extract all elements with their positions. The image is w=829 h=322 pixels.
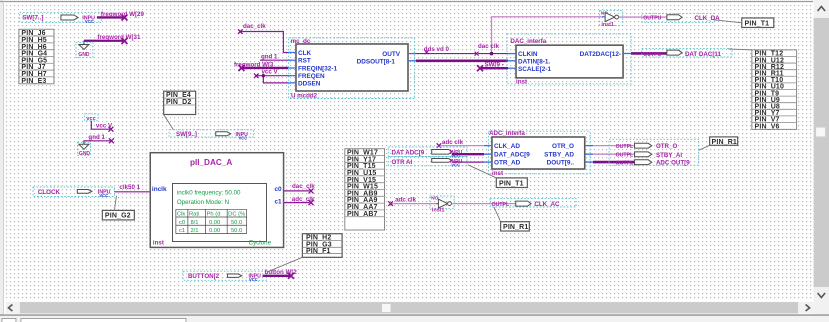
svg-text:dac_clk: dac_clk bbox=[243, 23, 266, 30]
svg-text:8/1: 8/1 bbox=[190, 220, 198, 226]
input pin DAT_ADC[9 bbox=[388, 147, 467, 159]
svg-text:Clk: Clk bbox=[177, 212, 185, 218]
svg-text:adc clk: adc clk bbox=[442, 139, 464, 146]
svg-text:CLK_DA: CLK_DA bbox=[695, 15, 721, 22]
svg-text:PIN_R1: PIN_R1 bbox=[503, 224, 528, 231]
svg-text:Rati: Rati bbox=[189, 212, 199, 218]
svg-text:c1: c1 bbox=[274, 198, 282, 205]
svg-text:c1: c1 bbox=[179, 228, 185, 234]
svg-text:DDSEN: DDSEN bbox=[298, 80, 321, 87]
wire gnd_1 into RST bbox=[260, 53, 288, 60]
output pins OTR_O / STBY_AD / ADC_OUT[9 selection bbox=[609, 139, 699, 165]
output pin ADC_OUT[9 bbox=[616, 160, 691, 167]
pin location box PIN_T12..PIN_V6 bbox=[728, 49, 797, 130]
wire vcc_V into FREQEN/DDSEN bbox=[254, 69, 288, 83]
svg-text:inst1: inst1 bbox=[601, 22, 614, 28]
svg-text:STBY_AD: STBY_AD bbox=[544, 152, 574, 159]
svg-text:OUTPL: OUTPL bbox=[616, 161, 634, 167]
svg-text:PIN_G2: PIN_G2 bbox=[105, 213, 131, 220]
svg-text:SW[7..]: SW[7..] bbox=[22, 14, 43, 21]
svg-text:CLK: CLK bbox=[298, 50, 312, 57]
pll U0: pll_DAC block bbox=[150, 153, 283, 248]
ground symbol (freqword) bbox=[76, 42, 93, 58]
svg-text:VCC: VCC bbox=[238, 135, 247, 140]
wire to CLK_AD output bbox=[451, 203, 515, 205]
svg-text:FREQEN: FREQEN bbox=[298, 73, 325, 80]
svg-text:VCC: VCC bbox=[451, 162, 460, 167]
input pin SW[9..] bbox=[169, 130, 254, 141]
svg-text:DAT ADC[9: DAT ADC[9 bbox=[391, 150, 424, 157]
output pin OTR_O bbox=[616, 143, 678, 150]
svg-text:DATIN[8-1.: DATIN[8-1. bbox=[518, 58, 550, 65]
svg-text:c0: c0 bbox=[179, 220, 185, 226]
input port symbol (SW) bbox=[61, 15, 95, 24]
svg-text:SW[9..]: SW[9..] bbox=[176, 131, 197, 138]
output pin STBY_AD bbox=[616, 152, 683, 159]
svg-text:GND: GND bbox=[78, 52, 90, 58]
wire adc_clk into inverter bbox=[388, 197, 436, 206]
svg-text:inst: inst bbox=[492, 170, 503, 177]
svg-text:ADC OUT[9: ADC OUT[9 bbox=[656, 160, 690, 167]
input pin OTR_AD bbox=[388, 156, 467, 167]
pin location box PIN_E4/PIN_D2 bbox=[164, 91, 196, 129]
svg-text:CLK_AC: CLK_AC bbox=[534, 201, 560, 208]
svg-text:inst1: inst1 bbox=[432, 207, 445, 213]
svg-text:STBY_AI: STBY_AI bbox=[656, 152, 682, 159]
output pin DAT_DAC[11 bbox=[642, 49, 732, 58]
svg-text:OUTV: OUTV bbox=[382, 51, 400, 58]
svg-text:BUTTON[2: BUTTON[2 bbox=[188, 273, 220, 280]
svg-text:gnd 1: gnd 1 bbox=[88, 134, 105, 141]
block U_mcdd2 (mc_dc) bbox=[288, 38, 416, 99]
svg-text:VCC: VCC bbox=[99, 193, 108, 198]
pin location box PIN_J6..PIN_E3 bbox=[19, 29, 54, 85]
svg-text:ADC_interfa: ADC_interfa bbox=[489, 130, 525, 137]
block ADC_interf selection bbox=[488, 131, 590, 174]
input pin SW[7..0] selection bbox=[20, 12, 102, 22]
svg-text:SW[9 -: SW[9 - bbox=[485, 61, 504, 68]
wire dds_vd_0 from OUTV bbox=[416, 46, 479, 56]
svg-text:vcc V: vcc V bbox=[261, 69, 278, 76]
svg-text:OUTPU: OUTPU bbox=[643, 52, 661, 58]
wire bus DDSOUT to DATIN bbox=[416, 59, 508, 62]
svg-text:2/1: 2/1 bbox=[190, 228, 198, 234]
svg-text:DDSOUT[8-1: DDSOUT[8-1 bbox=[357, 58, 396, 65]
inverter inst1 (top, NOT) bbox=[600, 10, 623, 27]
svg-text:SCALE[2-1: SCALE[2-1 bbox=[518, 66, 551, 73]
svg-text:c0: c0 bbox=[274, 186, 282, 193]
svg-text:DOUT[9..: DOUT[9.. bbox=[547, 160, 575, 167]
svg-text:inclk0 frequency: 50.00: inclk0 frequency: 50.00 bbox=[177, 189, 241, 196]
svg-text:PIN_AB7: PIN_AB7 bbox=[347, 211, 378, 218]
svg-text:DAT2DAC[12-: DAT2DAC[12- bbox=[580, 51, 621, 58]
svg-text:FREQIN[32-1: FREQIN[32-1 bbox=[298, 65, 338, 72]
svg-text:0.00: 0.00 bbox=[209, 228, 220, 234]
svg-text:adc clk: adc clk bbox=[395, 197, 417, 204]
svg-text:PIN_E3: PIN_E3 bbox=[21, 78, 46, 85]
svg-text:pll_DAC_A: pll_DAC_A bbox=[190, 158, 232, 167]
svg-text:OTR_O: OTR_O bbox=[552, 143, 574, 150]
svg-text:OUTPU: OUTPU bbox=[643, 16, 661, 22]
wire to CLK_DAC output bbox=[619, 16, 668, 18]
wire adc_clk from pll c1 bbox=[284, 196, 315, 205]
svg-text:inclk: inclk bbox=[152, 186, 167, 193]
svg-text:PIN_T1: PIN_T1 bbox=[499, 180, 524, 187]
svg-text:freqword W[31: freqword W[31 bbox=[97, 34, 141, 41]
svg-text:DAT DAC[11: DAT DAC[11 bbox=[685, 51, 722, 58]
input pin CLOCK bbox=[33, 187, 114, 198]
wire STBY_AD out bbox=[593, 153, 635, 155]
svg-text:OUTPL: OUTPL bbox=[616, 144, 634, 150]
wire dac_clk into DAC CLKIN and up to inverter bbox=[478, 17, 602, 56]
svg-text:OTR_O: OTR_O bbox=[656, 143, 678, 150]
wire dac_clk from pll c0 bbox=[284, 183, 315, 194]
svg-text:PIN_D2: PIN_D2 bbox=[166, 99, 191, 106]
wire gnd_1 bbox=[84, 134, 114, 144]
svg-text:VCC: VCC bbox=[85, 19, 94, 24]
svg-text:dac_clk: dac_clk bbox=[292, 183, 315, 190]
svg-text:50.0: 50.0 bbox=[231, 228, 242, 234]
svg-text:dac clk: dac clk bbox=[478, 43, 500, 50]
vcc power symbol bbox=[84, 114, 98, 122]
pin location box PIN_W17..PIN_AB7 bbox=[345, 149, 385, 230]
svg-text:DC (%: DC (% bbox=[228, 212, 245, 218]
svg-text:VCC: VCC bbox=[249, 277, 258, 282]
inverter inst1 (bottom, NOT) bbox=[430, 195, 454, 213]
svg-text:DAC_interfa: DAC_interfa bbox=[510, 38, 546, 45]
output pin CLK_AC bbox=[490, 198, 576, 208]
wire vcc_V bbox=[91, 121, 113, 132]
wire button W[2 (bus) bbox=[263, 269, 298, 279]
wire SW[9..8 bus into SCALE bbox=[477, 61, 508, 71]
svg-text:U mcdd2: U mcdd2 bbox=[291, 92, 318, 99]
svg-text:CLKIN: CLKIN bbox=[518, 51, 538, 58]
wire freqword W[31 bbox=[84, 34, 141, 44]
wire bus DAT2DAC out bbox=[631, 52, 667, 55]
svg-text:CLK_AD: CLK_AD bbox=[494, 143, 520, 150]
pin location box PIN_R1 (bottom) bbox=[494, 207, 529, 231]
pin location box PIN_H2/G3/F1 bbox=[267, 234, 342, 272]
wire freqword W[29 (bus) bbox=[97, 11, 145, 21]
block DAC_interf bbox=[508, 38, 631, 86]
block DAC_interf selection bbox=[507, 34, 631, 84]
svg-text:NO: NO bbox=[431, 195, 438, 200]
svg-text:Ph (d: Ph (d bbox=[207, 212, 221, 218]
output pin CLK_DA bbox=[642, 13, 720, 22]
ground symbol (gnd_1) bbox=[77, 142, 90, 157]
bottom window edge bbox=[0, 315, 829, 322]
wire dac_clk (top left run) bbox=[238, 23, 288, 52]
block U_mcdd2 selection bbox=[289, 38, 415, 99]
svg-text:clk50 1: clk50 1 bbox=[119, 184, 140, 191]
pin location box PIN_T1 (adc) bbox=[468, 165, 527, 188]
svg-text:50.0: 50.0 bbox=[231, 220, 242, 226]
svg-text:inst: inst bbox=[153, 240, 164, 247]
svg-text:OTR AI: OTR AI bbox=[391, 159, 412, 166]
wire freqword W[3 (bus into FREQIN) bbox=[234, 61, 288, 71]
horizontal scrollbar bbox=[6, 302, 813, 314]
svg-text:CLOCK: CLOCK bbox=[38, 189, 61, 196]
svg-text:PIN_R1: PIN_R1 bbox=[712, 139, 737, 146]
svg-text:gnd 1: gnd 1 bbox=[261, 53, 278, 60]
svg-text:PIN_T1: PIN_T1 bbox=[745, 20, 770, 27]
block ADC_interf bbox=[484, 130, 593, 177]
wire adc_clk into CLK_AD bbox=[437, 139, 484, 148]
svg-text:OTR_AD: OTR_AD bbox=[494, 160, 521, 167]
svg-text:0.00: 0.00 bbox=[209, 220, 220, 226]
wire OTR_O out bbox=[593, 145, 635, 147]
wire into OTR_AD bbox=[452, 161, 484, 163]
svg-text:inst: inst bbox=[516, 79, 527, 86]
svg-text:Cyclone: Cyclone bbox=[249, 240, 272, 247]
pin location box PIN_G2 bbox=[102, 196, 134, 220]
svg-text:RST: RST bbox=[298, 58, 311, 65]
svg-text:Operation Mode: N: Operation Mode: N bbox=[177, 199, 229, 206]
input pin BUTTON[2 bbox=[183, 271, 266, 282]
svg-text:PIN_F1: PIN_F1 bbox=[306, 248, 331, 255]
wire clk50 bbox=[114, 184, 150, 192]
svg-text:GND: GND bbox=[79, 151, 91, 157]
pin location box PIN_T14 bbox=[714, 18, 774, 28]
svg-text:DAT_ADC[9: DAT_ADC[9 bbox=[494, 152, 530, 159]
svg-text:PIN_V6: PIN_V6 bbox=[755, 123, 780, 130]
pin location box PIN_R1 (right) bbox=[699, 137, 738, 150]
svg-text:OUTPL: OUTPL bbox=[616, 153, 634, 159]
vertical scrollbar bbox=[814, 0, 829, 315]
wire bus ADC_OUT out bbox=[593, 161, 635, 164]
wire bus into DAT_ADC bbox=[452, 153, 484, 155]
